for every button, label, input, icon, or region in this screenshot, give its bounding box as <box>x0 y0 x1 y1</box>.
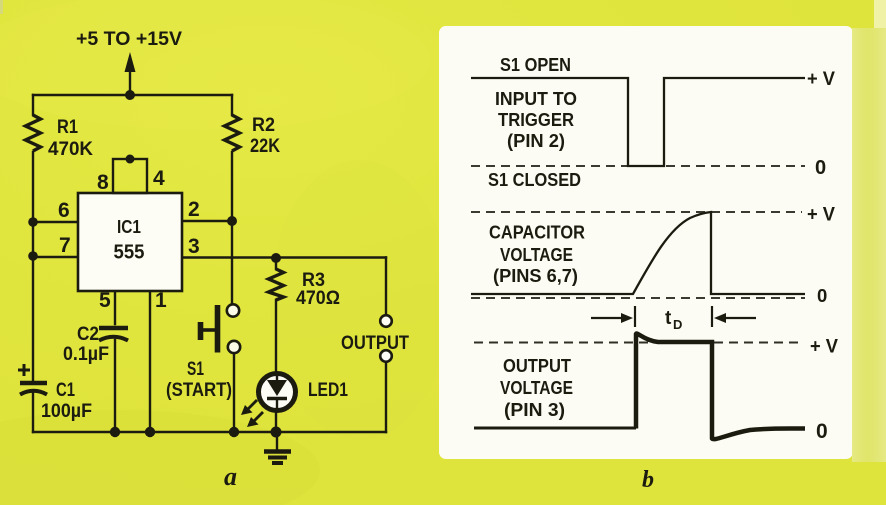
svg-text:470Ω: 470Ω <box>296 288 340 309</box>
LED LED1 <box>259 374 349 413</box>
output trace pulse <box>636 334 805 440</box>
pin 6 wire <box>33 221 78 223</box>
junction dot LED rail <box>271 427 282 438</box>
svg-text:+ V: + V <box>807 204 835 226</box>
svg-text:555: 555 <box>114 242 145 264</box>
td right tick <box>711 306 713 327</box>
svg-text:8: 8 <box>97 171 109 194</box>
output branch wire <box>385 258 387 433</box>
svg-text:+ V: + V <box>810 336 838 358</box>
svg-text:(PIN 2): (PIN 2) <box>507 130 565 151</box>
trigger 0 dashed line <box>471 165 805 167</box>
junction dot notch top <box>126 155 135 164</box>
pin 1 wire <box>149 291 151 432</box>
svg-text:(PIN 3): (PIN 3) <box>504 399 565 420</box>
capacitor C2 <box>63 324 128 365</box>
svg-text:(START): (START) <box>166 380 232 401</box>
output terminal top <box>380 315 392 327</box>
svg-text:7: 7 <box>59 234 71 257</box>
junction dot pin2 <box>227 216 237 226</box>
junction dot C2 rail <box>110 427 120 437</box>
left vertical wire <box>32 95 34 432</box>
junction dot pin1 rail <box>145 427 155 437</box>
white panel b <box>439 26 853 459</box>
pin 7 wire <box>33 256 78 258</box>
svg-text:TRIGGER: TRIGGER <box>498 109 574 130</box>
svg-text:OUTPUT: OUTPUT <box>341 333 409 354</box>
td left arrow <box>591 313 633 323</box>
svg-text:0: 0 <box>817 285 827 306</box>
svg-text:1: 1 <box>155 289 167 312</box>
svg-text:0: 0 <box>816 420 828 443</box>
output +V dashed line <box>474 342 803 344</box>
supply wire <box>129 60 131 95</box>
svg-text:OUTPUT: OUTPUT <box>503 355 572 376</box>
svg-text:0.1µF: 0.1µF <box>63 344 109 365</box>
svg-text:C1: C1 <box>56 380 75 401</box>
svg-text:+ V: + V <box>807 68 835 90</box>
top rail wire <box>33 94 232 96</box>
capacitor trace <box>471 212 805 294</box>
svg-text:S1: S1 <box>187 359 204 380</box>
svg-text:R1: R1 <box>57 117 78 138</box>
S1 lower wire <box>233 354 235 433</box>
svg-text:0: 0 <box>815 157 826 179</box>
capacitor +V dashed line <box>471 211 802 213</box>
switch S1 <box>166 304 240 401</box>
svg-text:+5 TO +15V: +5 TO +15V <box>76 29 182 50</box>
resistor R3 <box>269 269 341 309</box>
svg-text:22K: 22K <box>250 136 280 157</box>
svg-text:VOLTAGE: VOLTAGE <box>500 377 573 398</box>
svg-text:D: D <box>673 317 682 332</box>
td left tick <box>634 306 636 327</box>
junction dot S1 rail <box>229 427 239 437</box>
svg-text:470K: 470K <box>48 139 93 160</box>
svg-text:(PINS 6,7): (PINS 6,7) <box>493 265 578 286</box>
svg-text:S1 CLOSED: S1 CLOSED <box>488 169 581 190</box>
junction dot pin3/R3 tap <box>271 253 281 263</box>
LED light arrows <box>241 400 263 427</box>
output trace baseline <box>474 427 636 430</box>
junction dot supply tap <box>125 90 135 100</box>
bottom rail wire <box>33 431 386 433</box>
capacitor 0 dashed line <box>471 297 805 299</box>
supply arrowhead <box>125 52 136 72</box>
svg-text:CAPACITOR: CAPACITOR <box>489 222 585 243</box>
op-amp/timer IC1 555 box <box>78 159 182 291</box>
svg-text:5: 5 <box>99 289 111 312</box>
svg-text:C2: C2 <box>77 324 99 345</box>
junction dot pin6 <box>28 217 38 227</box>
pin 5 wire <box>114 291 116 432</box>
svg-text:a: a <box>224 462 237 491</box>
output terminal bottom <box>380 350 392 362</box>
svg-text:R2: R2 <box>252 115 275 136</box>
junction dot pin7 <box>28 251 38 261</box>
svg-text:3: 3 <box>188 235 200 258</box>
right vertical wire <box>231 95 233 304</box>
resistor R2 <box>225 115 281 157</box>
green textured strip right of panel <box>852 28 886 462</box>
R3 wire <box>275 258 277 433</box>
pin 2 wire <box>182 220 232 222</box>
svg-text:100µF: 100µF <box>41 401 92 422</box>
svg-text:INPUT TO: INPUT TO <box>495 88 577 109</box>
svg-text:LED1: LED1 <box>308 380 348 401</box>
svg-text:2: 2 <box>188 198 200 221</box>
ground <box>264 432 291 463</box>
svg-text:VOLTAGE: VOLTAGE <box>500 244 573 265</box>
svg-text:IC1: IC1 <box>117 217 141 237</box>
capacitor C1 <box>18 364 92 422</box>
svg-text:S1 OPEN: S1 OPEN <box>500 54 571 75</box>
svg-text:6: 6 <box>58 199 70 222</box>
svg-text:b: b <box>642 467 654 493</box>
svg-text:4: 4 <box>153 167 165 190</box>
trigger trace <box>471 78 805 166</box>
td right arrow <box>714 313 756 323</box>
resistor R1 <box>26 115 94 160</box>
pin 3 wire <box>182 256 386 258</box>
svg-text:t: t <box>665 308 672 329</box>
